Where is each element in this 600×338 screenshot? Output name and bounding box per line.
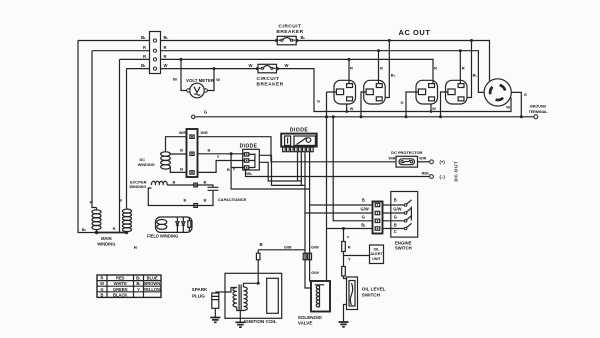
- svg-text:DC: DC: [140, 158, 146, 162]
- svg-text:G/W: G/W: [311, 246, 319, 250]
- svg-text:B: B: [119, 197, 122, 202]
- svg-text:B: B: [394, 197, 397, 202]
- svg-text:GREEN: GREEN: [113, 287, 128, 292]
- svg-text:PLUG: PLUG: [192, 293, 205, 298]
- svg-text:ALERT: ALERT: [371, 252, 384, 256]
- svg-text:B: B: [260, 242, 263, 247]
- svg-text:CIRCUIT: CIRCUIT: [257, 76, 280, 82]
- svg-text:R: R: [350, 66, 353, 71]
- svg-text:Br: Br: [173, 77, 178, 82]
- svg-text:WINDING: WINDING: [138, 163, 155, 167]
- svg-text:B: B: [204, 179, 207, 184]
- svg-text:VOLT METER: VOLT METER: [186, 78, 215, 83]
- svg-text:G/W: G/W: [361, 207, 369, 212]
- svg-text:(−): (−): [440, 174, 446, 179]
- svg-text:BL: BL: [82, 227, 87, 232]
- svg-text:W: W: [285, 63, 289, 68]
- svg-text:Y: Y: [137, 287, 140, 292]
- svg-text:UNIT: UNIT: [372, 257, 381, 261]
- svg-text:R: R: [380, 66, 383, 71]
- svg-text:B: B: [394, 222, 397, 227]
- svg-text:G: G: [362, 215, 365, 220]
- svg-text:BL: BL: [164, 35, 169, 40]
- svg-text:G: G: [317, 100, 320, 104]
- svg-text:B: B: [101, 292, 104, 297]
- svg-text:SWITCH: SWITCH: [395, 246, 412, 251]
- svg-text:BREAKER: BREAKER: [257, 82, 284, 88]
- svg-text:W: W: [100, 281, 104, 286]
- svg-text:W: W: [506, 105, 510, 110]
- svg-text:GROUND: GROUND: [530, 105, 547, 109]
- svg-text:C: C: [394, 229, 397, 234]
- svg-text:CIRCUIT: CIRCUIT: [279, 23, 302, 29]
- svg-text:W/R: W/R: [419, 157, 426, 161]
- svg-text:B: B: [184, 198, 187, 203]
- svg-text:SWITCH: SWITCH: [362, 293, 381, 298]
- svg-text:Y: Y: [233, 167, 236, 172]
- svg-text:WINDING: WINDING: [130, 185, 147, 189]
- svg-text:G/W: G/W: [284, 246, 292, 250]
- svg-text:R: R: [164, 45, 167, 50]
- svg-text:RED: RED: [116, 276, 125, 281]
- svg-text:SOLENOID: SOLENOID: [298, 315, 323, 320]
- svg-text:R: R: [348, 245, 351, 250]
- svg-text:G/W: G/W: [311, 271, 319, 275]
- svg-text:G: G: [204, 110, 207, 115]
- svg-text:Y: Y: [217, 154, 220, 159]
- svg-text:R: R: [101, 276, 104, 281]
- svg-text:W/R: W/R: [179, 131, 187, 135]
- svg-text:W: W: [432, 107, 436, 111]
- svg-text:B: B: [204, 198, 207, 203]
- svg-text:CAPACITANCE: CAPACITANCE: [218, 197, 247, 202]
- svg-text:R: R: [164, 54, 167, 59]
- svg-text:BL: BL: [136, 276, 141, 281]
- svg-text:W: W: [350, 107, 354, 111]
- svg-text:WHITE: WHITE: [114, 281, 127, 286]
- svg-text:BLUE: BLUE: [147, 276, 158, 281]
- svg-text:R: R: [113, 226, 116, 231]
- svg-text:Y: Y: [347, 235, 350, 240]
- svg-text:B: B: [227, 167, 230, 172]
- svg-text:B: B: [362, 197, 365, 202]
- svg-text:B: B: [173, 179, 176, 184]
- svg-text:G: G: [100, 287, 103, 292]
- svg-text:DC OUT: DC OUT: [454, 161, 459, 182]
- svg-text:R: R: [143, 54, 146, 59]
- svg-text:R: R: [434, 66, 437, 71]
- svg-text:R/BL: R/BL: [245, 172, 253, 176]
- svg-text:SPARK: SPARK: [192, 287, 208, 292]
- svg-text:BL: BL: [361, 222, 366, 227]
- svg-text:W: W: [249, 63, 253, 68]
- svg-text:YELLOW: YELLOW: [143, 287, 161, 292]
- svg-text:H: H: [134, 245, 137, 250]
- svg-text:BL: BL: [391, 73, 396, 78]
- svg-text:TERMINAL: TERMINAL: [528, 110, 548, 114]
- svg-text:G: G: [401, 101, 404, 105]
- svg-text:DC PROTECTOR: DC PROTECTOR: [391, 150, 422, 155]
- svg-text:W/R: W/R: [389, 157, 396, 161]
- svg-text:DIODE: DIODE: [240, 143, 258, 149]
- svg-text:B: B: [180, 167, 183, 172]
- svg-text:G/W: G/W: [393, 207, 401, 212]
- svg-text:BROWN: BROWN: [144, 281, 160, 286]
- svg-text:R: R: [143, 45, 146, 50]
- svg-text:B: B: [208, 148, 211, 153]
- svg-text:OIL LEVEL: OIL LEVEL: [362, 286, 386, 291]
- svg-text:R/BL: R/BL: [422, 172, 430, 176]
- svg-text:B: B: [180, 148, 183, 153]
- svg-text:W/R: W/R: [201, 131, 209, 135]
- svg-text:G: G: [524, 92, 527, 97]
- svg-text:BL: BL: [473, 72, 478, 77]
- svg-text:BL: BL: [141, 35, 146, 40]
- svg-text:Y: Y: [348, 256, 351, 261]
- svg-text:BL: BL: [301, 35, 306, 40]
- svg-text:R: R: [90, 200, 93, 205]
- svg-text:AC OUT: AC OUT: [399, 28, 431, 37]
- svg-text:(+): (+): [440, 159, 446, 164]
- svg-text:R: R: [462, 66, 465, 71]
- svg-text:BLACK: BLACK: [113, 292, 127, 297]
- svg-text:OIL: OIL: [374, 248, 381, 252]
- svg-text:IGNITION COIL: IGNITION COIL: [244, 319, 277, 324]
- svg-text:W: W: [164, 63, 168, 68]
- svg-text:DIODE: DIODE: [290, 127, 309, 133]
- svg-text:WINDING: WINDING: [97, 241, 115, 246]
- svg-text:W: W: [216, 77, 220, 82]
- svg-text:EXCITER: EXCITER: [130, 180, 147, 184]
- svg-text:VALVE: VALVE: [298, 321, 313, 326]
- svg-text:BL: BL: [141, 63, 146, 68]
- svg-text:FIELD WINDING: FIELD WINDING: [147, 233, 178, 238]
- svg-text:G: G: [394, 215, 397, 220]
